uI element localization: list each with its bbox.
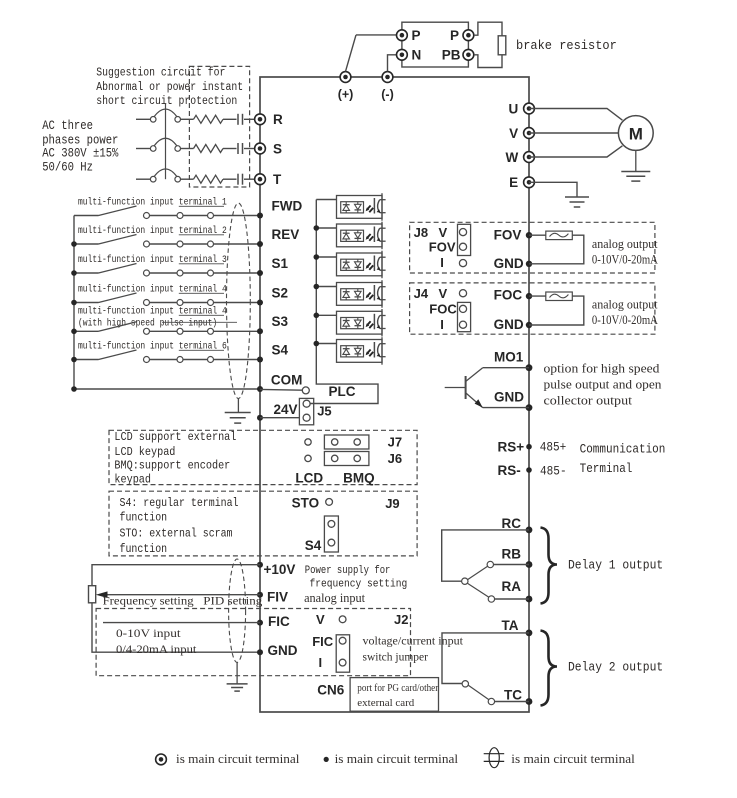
24V wire to J5: [260, 417, 299, 419]
breaker interlock link line: [165, 104, 167, 179]
svg-text:S: S: [273, 141, 282, 156]
terminal U: [524, 103, 535, 114]
inverter main block outline: [260, 77, 529, 712]
svg-text:BMQ:support encoder: BMQ:support encoder: [114, 459, 230, 473]
relay1 common wire: [442, 530, 529, 581]
COM wire: [74, 388, 260, 390]
opto bus wire S4: [316, 343, 336, 345]
switch blade FWD: [99, 206, 137, 216]
transistor Q1: [465, 376, 467, 399]
svg-text:P: P: [412, 28, 421, 43]
potentiometer body: [89, 586, 96, 603]
wire P to brake resistor top: [474, 22, 502, 36]
svg-text:0-10V/0-20mA: 0-10V/0-20mA: [592, 253, 658, 267]
svg-text:(with high speed pulse input): (with high speed pulse input): [78, 318, 217, 329]
capacitor R: [237, 114, 239, 125]
resistor S: [194, 145, 224, 153]
svg-text:GND: GND: [268, 643, 298, 658]
wire S: [223, 148, 237, 150]
svg-text:S2: S2: [272, 285, 289, 300]
breaker arc T: [154, 169, 177, 177]
bus junction S3: [71, 329, 77, 335]
svg-text:analog output: analog output: [592, 298, 658, 312]
jumper J2 block: [336, 635, 349, 672]
relay1 pivot: [462, 578, 468, 584]
suggestion circuit dashed box: [189, 66, 249, 187]
svg-text:voltage/current input: voltage/current input: [363, 634, 464, 648]
svg-text:Terminal: Terminal: [580, 462, 633, 476]
shield ground stem: [237, 398, 239, 412]
jumper J4: [458, 302, 471, 331]
svg-text:J5: J5: [317, 403, 331, 418]
terminal S1 junction: [257, 270, 263, 276]
opto bus wire REV: [316, 227, 336, 229]
resistor R: [194, 115, 224, 123]
svg-text:Suggestion circuit for: Suggestion circuit for: [96, 67, 225, 80]
bus junction S1: [71, 270, 77, 276]
terminal PB right: [463, 49, 474, 60]
svg-text:I: I: [440, 317, 444, 332]
terminal W: [524, 152, 535, 163]
wire FWD: [150, 215, 178, 217]
svg-text:S3: S3: [272, 314, 289, 329]
relay1 contact RB: [487, 561, 493, 567]
svg-text:0/4-20mA input: 0/4-20mA input: [116, 642, 197, 656]
svg-text:pulse output and open: pulse output and open: [544, 378, 663, 392]
svg-text:frequency setting: frequency setting: [310, 578, 408, 590]
J4 dashed box: [410, 283, 655, 334]
svg-text:GND: GND: [494, 317, 524, 332]
motor ground: [635, 150, 637, 171]
switch wire S3: [74, 330, 99, 332]
relay1 blade to RB: [468, 566, 488, 579]
svg-text:FOV: FOV: [429, 240, 456, 255]
terminal +10V: [257, 562, 263, 568]
switch contacts S2: [144, 300, 150, 306]
svg-text:LCD: LCD: [295, 471, 323, 486]
svg-text:FOC: FOC: [429, 301, 457, 316]
svg-text:external card: external card: [357, 697, 414, 709]
wire W to motor: [529, 146, 622, 157]
wire FIC: [103, 622, 260, 624]
svg-text:AC three: AC three: [42, 119, 93, 133]
terminal REV junction: [257, 241, 263, 247]
jumper J8: [458, 224, 471, 255]
svg-text:J7: J7: [388, 435, 402, 450]
svg-text:24V: 24V: [274, 402, 298, 417]
wire T: [244, 178, 255, 180]
svg-text:multi-function input terminal: multi-function input terminal 1: [78, 196, 227, 207]
opto-coupler FWD: [337, 196, 383, 219]
breaker contact circles T: [150, 176, 156, 182]
svg-text:AC 380V ±15%: AC 380V ±15%: [42, 147, 119, 161]
svg-text:J2: J2: [394, 612, 408, 627]
switch wire FWD: [74, 215, 99, 217]
svg-text:J6: J6: [388, 451, 402, 466]
svg-text:485+: 485+: [540, 441, 567, 455]
terminal P left: [397, 30, 408, 41]
terminal R: [255, 114, 266, 125]
svg-text:I: I: [440, 255, 444, 270]
wire MO1: [483, 367, 529, 369]
P/N terminal box: [402, 22, 469, 67]
terminal GND analog: [257, 649, 263, 655]
FOV filter loop: [529, 234, 546, 236]
terminal FWD junction: [257, 213, 263, 219]
switch blade from (+) to P: [346, 35, 357, 72]
analog input dashed box: [96, 609, 410, 676]
opto bus wire S1: [316, 256, 336, 258]
svg-text:50/60 Hz: 50/60 Hz: [42, 161, 93, 175]
switch wire REV: [74, 243, 99, 245]
svg-text:J8: J8: [414, 225, 428, 240]
capacitor S: [237, 143, 239, 154]
svg-text:FWD: FWD: [272, 198, 303, 213]
svg-text:TA: TA: [502, 618, 519, 633]
svg-text:RA: RA: [502, 579, 522, 594]
wire S3: [150, 330, 178, 332]
terminal 24V: [257, 415, 263, 421]
svg-text:PB: PB: [442, 48, 461, 63]
svg-text:RS-: RS-: [498, 463, 521, 478]
opto-coupler S1: [337, 253, 383, 276]
svg-text:PID setting: PID setting: [203, 593, 262, 607]
PG card port box: [350, 678, 438, 712]
FOC filter loop: [529, 295, 546, 297]
svg-text:analog output: analog output: [592, 237, 658, 251]
bus junction S2: [71, 300, 77, 306]
svg-text:CN6: CN6: [317, 682, 344, 697]
wire GND MO1: [483, 407, 529, 409]
relay2 common wire: [442, 633, 529, 684]
shield ground stem analog: [236, 662, 238, 684]
wire U to motor: [529, 109, 622, 121]
svg-text:switch jumper: switch jumper: [363, 650, 429, 664]
terminal S2 junction: [257, 300, 263, 306]
opto bus wire S2: [316, 286, 336, 288]
svg-text:TC: TC: [504, 687, 522, 702]
switch blade S1: [99, 264, 137, 274]
switch contacts S4: [144, 357, 150, 363]
svg-text:FOC: FOC: [494, 288, 523, 303]
wire COM to pin: [260, 388, 302, 391]
svg-text:REV: REV: [272, 227, 300, 242]
switch wire S1: [74, 272, 99, 274]
legend dot: [324, 757, 329, 762]
svg-text:multi-function input terminal: multi-function input terminal 3: [78, 254, 227, 265]
svg-text:U: U: [508, 101, 518, 116]
opto-coupler REV: [337, 224, 383, 247]
breaker arc S: [154, 138, 177, 146]
terminal P right: [463, 30, 474, 41]
svg-text:analog input: analog input: [304, 591, 366, 605]
relay2 contact TC: [488, 698, 494, 704]
jumper S4: [324, 516, 338, 552]
svg-text:port for PG card/other: port for PG card/other: [357, 682, 438, 694]
brace delay1: [541, 528, 558, 604]
svg-text:phases power: phases power: [42, 134, 118, 148]
jumper J5 block: [299, 398, 313, 424]
legend bullseye: [156, 754, 167, 765]
breaker arc R: [154, 109, 177, 117]
terminal T: [255, 174, 266, 185]
COM pin circle: [302, 387, 309, 394]
relay2 blade: [468, 685, 489, 699]
svg-text:S4: regular terminal: S4: regular terminal: [120, 496, 239, 510]
svg-text:is main circuit terminal: is main circuit terminal: [176, 752, 300, 766]
wire T: [181, 178, 194, 180]
jumper J7: [305, 439, 311, 445]
wire (+) switch to P: [356, 34, 396, 36]
switch wire S4: [74, 359, 99, 361]
svg-text:keypad: keypad: [114, 472, 151, 486]
opto input bus: [310, 200, 378, 404]
wire V to motor: [529, 132, 618, 134]
terminal S3 junction: [257, 328, 263, 334]
breaker contact circles R: [150, 117, 156, 123]
svg-text:STO: external scram: STO: external scram: [120, 527, 233, 541]
ground: [225, 412, 251, 414]
S4 STO dashed box: [109, 491, 417, 556]
opto-coupler S3: [337, 311, 383, 334]
svg-text:multi-function input terminal: multi-function input terminal 6: [78, 340, 227, 351]
bus junction S4: [71, 357, 77, 363]
shield ellipse digital inputs: [227, 203, 251, 398]
svg-text:I: I: [319, 655, 323, 670]
relay2 pivot: [462, 681, 468, 687]
wire AC phase S: [136, 148, 150, 150]
svg-text:multi-function input terminal: multi-function input terminal 2: [78, 225, 227, 236]
shield ellipse analog: [229, 559, 246, 662]
svg-text:N: N: [412, 48, 422, 63]
legend shield symbol: [489, 748, 499, 768]
wire T: [223, 178, 237, 180]
svg-text:Power supply for: Power supply for: [305, 565, 391, 577]
switch wire S2: [74, 302, 99, 304]
svg-text:GND: GND: [494, 256, 524, 271]
resistor T: [194, 175, 224, 183]
svg-text:(-): (-): [381, 88, 394, 102]
capacitor T: [237, 174, 239, 185]
motor M: [618, 116, 653, 151]
svg-text:Delay 1 output: Delay 1 output: [568, 558, 663, 572]
svg-text:brake resistor: brake resistor: [516, 39, 617, 53]
svg-text:BMQ: BMQ: [343, 471, 375, 486]
terminal S4 junction: [257, 357, 263, 363]
svg-text:P: P: [450, 28, 459, 43]
opto bus wire S3: [316, 314, 336, 316]
opto bus wire FWD: [316, 199, 336, 201]
terminal N left: [397, 49, 408, 60]
svg-text:S1: S1: [272, 256, 289, 271]
svg-text:is main circuit terminal: is main circuit terminal: [335, 752, 459, 766]
wire S1: [150, 272, 178, 274]
svg-text:R: R: [273, 112, 283, 127]
svg-text:M: M: [629, 125, 643, 144]
svg-text:option for high speed: option for high speed: [544, 362, 661, 376]
svg-text:is main circuit terminal: is main circuit terminal: [511, 752, 635, 766]
svg-text:FOV: FOV: [494, 227, 522, 242]
terminal FIC: [257, 620, 263, 626]
wire S2: [150, 302, 178, 304]
svg-text:(+): (+): [338, 88, 354, 102]
switch contacts REV: [144, 241, 150, 247]
terminal V: [524, 128, 535, 139]
opto-coupler S4: [337, 340, 383, 363]
switch blade REV: [99, 235, 137, 245]
switch contacts S1: [144, 270, 150, 276]
wire S: [244, 148, 255, 150]
svg-text:short circuit protection: short circuit protection: [96, 95, 237, 108]
svg-text:FIC: FIC: [312, 634, 334, 649]
wire R: [244, 118, 255, 120]
opto-coupler S2: [337, 283, 383, 306]
terminal (+): [340, 72, 351, 83]
ground analog: [227, 683, 248, 685]
svg-text:0-10V input: 0-10V input: [116, 626, 181, 640]
terminal (-): [382, 72, 393, 83]
wire FIV to pot wiper: [99, 594, 260, 596]
switch contacts FWD: [144, 213, 150, 219]
wire E to ground: [529, 182, 577, 197]
wire REV: [150, 243, 178, 245]
svg-text:MO1: MO1: [494, 349, 524, 364]
svg-text:S4: S4: [305, 538, 322, 553]
relay1 blade to RA: [467, 583, 489, 597]
jumper J6: [305, 455, 311, 461]
terminal FIV: [257, 592, 263, 598]
svg-text:RB: RB: [502, 547, 522, 562]
svg-text:multi-function input terminal: multi-function input terminal 4: [78, 305, 227, 316]
svg-text:0-10V/0-20mA: 0-10V/0-20mA: [592, 313, 658, 327]
svg-text:Frequency setting: Frequency setting: [103, 593, 194, 607]
svg-text:STO: STO: [292, 495, 320, 510]
svg-text:function: function: [120, 510, 168, 524]
svg-text:FIC: FIC: [268, 614, 290, 629]
svg-text:V: V: [509, 126, 518, 141]
wire AC phase R: [136, 118, 150, 120]
switch blade S3: [99, 322, 137, 332]
wire pot bottom to GND: [92, 603, 260, 652]
brake resistor body: [498, 36, 506, 55]
wire +10V to potentiometer: [92, 565, 260, 586]
svg-text:RS+: RS+: [498, 440, 525, 455]
svg-text:+10V: +10V: [264, 562, 296, 577]
switch blade S2: [99, 293, 137, 303]
terminal S: [255, 143, 266, 154]
wire R: [223, 118, 237, 120]
switch contacts S3: [144, 328, 150, 334]
wire AC phase T: [136, 178, 150, 180]
svg-text:J9: J9: [385, 496, 399, 511]
svg-text:J4: J4: [414, 286, 429, 301]
svg-text:W: W: [505, 150, 518, 165]
bus junction REV: [71, 241, 77, 247]
svg-text:E: E: [509, 175, 518, 190]
svg-text:V: V: [439, 286, 448, 301]
svg-text:multi-function input terminal: multi-function input terminal 4: [78, 283, 227, 294]
switch blade S4: [99, 350, 137, 360]
wire S: [181, 148, 194, 150]
breaker contact circles S: [150, 146, 156, 152]
wire (-) to N: [388, 55, 397, 72]
svg-text:485-: 485-: [540, 465, 567, 479]
svg-text:function: function: [120, 542, 168, 556]
wire S4: [150, 359, 178, 361]
svg-text:V: V: [316, 612, 325, 627]
svg-text:LCD support external: LCD support external: [114, 430, 236, 444]
J8 dashed box: [410, 222, 655, 273]
LCD support dashed box: [109, 430, 417, 484]
left common bus for multi-function inputs: [73, 216, 75, 390]
svg-text:COM: COM: [271, 372, 303, 387]
svg-text:Delay 2 output: Delay 2 output: [568, 661, 663, 675]
svg-text:S4: S4: [272, 342, 289, 357]
wire R: [181, 118, 194, 120]
ground E: [565, 196, 589, 198]
svg-text:PLC: PLC: [329, 384, 356, 399]
svg-text:Communication: Communication: [580, 442, 666, 456]
svg-text:Abnormal or power instant: Abnormal or power instant: [96, 81, 243, 94]
wire PB to brake resistor bottom: [474, 55, 502, 68]
svg-text:T: T: [273, 172, 282, 187]
svg-text:collector output: collector output: [544, 394, 633, 408]
terminal E: [524, 177, 535, 188]
svg-text:RC: RC: [502, 516, 522, 531]
terminal COM: [257, 386, 263, 392]
svg-text:V: V: [439, 225, 448, 240]
svg-text:GND: GND: [494, 389, 524, 404]
svg-text:LCD keypad: LCD keypad: [114, 445, 175, 459]
relay1 contact RA: [488, 596, 494, 602]
brace delay2: [541, 631, 558, 706]
svg-text:FIV: FIV: [267, 589, 288, 604]
